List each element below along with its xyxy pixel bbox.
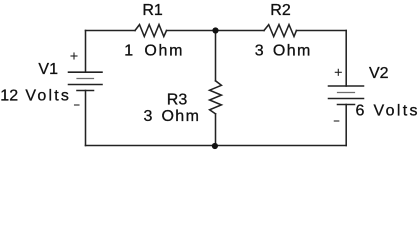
wire bottom segment	[86, 145, 347, 147]
resistor R1	[135, 25, 167, 37]
label 6 Volts (value of V2)	[356, 102, 418, 119]
V1 plus sign	[71, 53, 77, 59]
battery V2	[329, 86, 364, 105]
svg-text:R1: R1	[142, 2, 163, 19]
V2 plus sign	[335, 69, 341, 75]
label 3 Ohm (value of R2)	[255, 43, 311, 60]
label 12 Volts (value of V1)	[0, 88, 69, 105]
svg-text:Volts: Volts	[25, 88, 69, 105]
node junction dot top	[212, 27, 218, 33]
wire right vertical lower (V2 - terminal)	[345, 105, 347, 146]
svg-text:1: 1	[124, 43, 133, 60]
wire top-right segment (R2 to V2)	[296, 30, 346, 32]
wire top-middle segment (R1 to R2 through node)	[167, 30, 265, 32]
wire middle vertical upper (node to R3)	[215, 31, 217, 81]
svg-text:Ohm: Ohm	[273, 43, 311, 60]
svg-text:R3: R3	[167, 92, 188, 109]
battery V1	[69, 72, 103, 90]
svg-text:6: 6	[356, 102, 365, 119]
svg-text:V1: V1	[38, 61, 58, 78]
V1 minus sign	[75, 104, 80, 106]
wire middle vertical lower (R3 to bottom node)	[215, 114, 217, 146]
wire left vertical lower (V1 - terminal)	[85, 91, 87, 146]
svg-text:3: 3	[144, 108, 153, 125]
label 1 Ohm (value of R1)	[124, 43, 182, 60]
wire top-left segment (V1 top to R1)	[86, 30, 136, 32]
V2 minus sign	[334, 120, 339, 122]
svg-text:3: 3	[255, 43, 264, 60]
svg-text:Volts: Volts	[374, 102, 418, 119]
wire right vertical upper (V2 + terminal)	[345, 31, 347, 87]
svg-text:Ohm: Ohm	[161, 108, 199, 125]
svg-text:V2: V2	[369, 65, 389, 82]
wire left vertical upper (V1 + terminal)	[85, 31, 87, 73]
resistor R2	[264, 25, 296, 37]
label 3 Ohm (value of R3)	[144, 108, 199, 125]
resistor R3	[210, 81, 222, 114]
svg-text:12: 12	[0, 88, 18, 105]
svg-text:Ohm: Ohm	[144, 43, 182, 60]
node junction dot bottom	[212, 143, 218, 149]
svg-text:R2: R2	[270, 2, 291, 19]
